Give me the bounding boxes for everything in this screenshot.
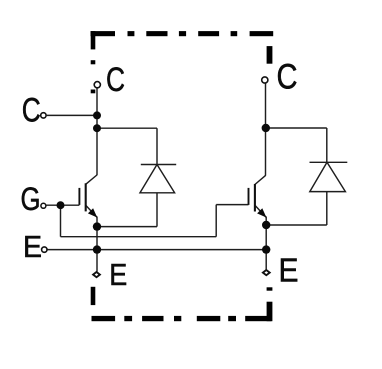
junction dot Q2 emitter node — [262, 221, 270, 229]
junction dot diode D1 tap — [93, 124, 101, 132]
wire diode D2 bottom to emitter node — [266, 224, 327, 226]
terminal diamond E2 bottom — [263, 270, 270, 275]
diode D2 triangle — [310, 162, 346, 191]
transistor Q1 body bar — [85, 183, 87, 211]
wire diode D1 branch upper — [156, 128, 158, 164]
wire Q2 emitter down to E terminal — [265, 217, 267, 270]
junction dot C aux node — [93, 111, 101, 119]
transistor Q1 emitter arrowhead — [88, 208, 97, 217]
svg-text:C: C — [22, 92, 41, 130]
terminal circle C2 top — [262, 77, 268, 83]
wire gate bus down — [60, 205, 62, 237]
box right edge — [267, 46, 273, 321]
wire Q1 emitter down to E terminal — [96, 217, 98, 272]
wire diode D2 branch lower — [326, 192, 328, 225]
wire diode D1 bottom to emitter node — [97, 226, 157, 228]
svg-text:C: C — [277, 58, 298, 97]
transistor Q1 collector diagonal — [86, 175, 97, 184]
junction dot gate node — [57, 201, 65, 209]
wire C1 top terminal down to collector — [96, 88, 98, 175]
terminal circle C aux — [41, 113, 46, 118]
svg-text:E: E — [23, 229, 42, 264]
diode D1 cathode bar — [141, 164, 176, 166]
wire gate bus horizontal — [61, 236, 217, 238]
wire diode D1 branch lower — [156, 193, 158, 227]
transistor Q2 body bar — [254, 184, 256, 212]
terminal diamond E1 bottom — [93, 272, 100, 277]
wire E bus — [48, 249, 267, 251]
module outline dash-dot box — [91, 31, 274, 321]
wire gate lead G to Q1 — [46, 204, 79, 206]
transistor Q2 emitter diagonal — [255, 205, 266, 217]
diode D1 triangle — [140, 165, 175, 193]
transistor Q1 emitter diagonal — [86, 205, 97, 217]
transistor Q2 emitter arrowhead — [257, 208, 266, 217]
diode D2 cathode bar — [310, 161, 348, 163]
wire diode D2 branch upper — [326, 128, 328, 162]
wire gate bus to Q2 gate — [216, 204, 248, 206]
terminal circle E aux — [42, 247, 47, 252]
transistor Q2 collector diagonal — [255, 175, 266, 184]
junction dot E bus right — [262, 245, 270, 253]
terminal circle C1 top — [94, 82, 100, 88]
wire C2 top terminal down to collector — [265, 83, 267, 175]
svg-text:C: C — [106, 61, 125, 99]
transistor Q2 gate bar — [248, 188, 250, 205]
svg-text:G: G — [21, 181, 41, 217]
svg-text:E: E — [279, 252, 299, 289]
box left edge — [91, 31, 96, 305]
wire node to diode D2 top — [266, 127, 327, 129]
junction dot E bus left — [93, 245, 101, 253]
box top edge — [91, 31, 274, 36]
svg-text:E: E — [109, 257, 127, 292]
junction dot Q1 emitter node — [93, 222, 101, 230]
transistor Q1 gate bar — [78, 188, 80, 205]
wire gate bus riser — [215, 205, 217, 237]
terminal circle G — [41, 203, 46, 208]
box bottom edge — [92, 316, 272, 321]
junction dot diode D2 tap — [262, 124, 270, 132]
wire node to diode D1 top — [97, 127, 157, 129]
wire C aux terminal to node — [47, 114, 97, 116]
